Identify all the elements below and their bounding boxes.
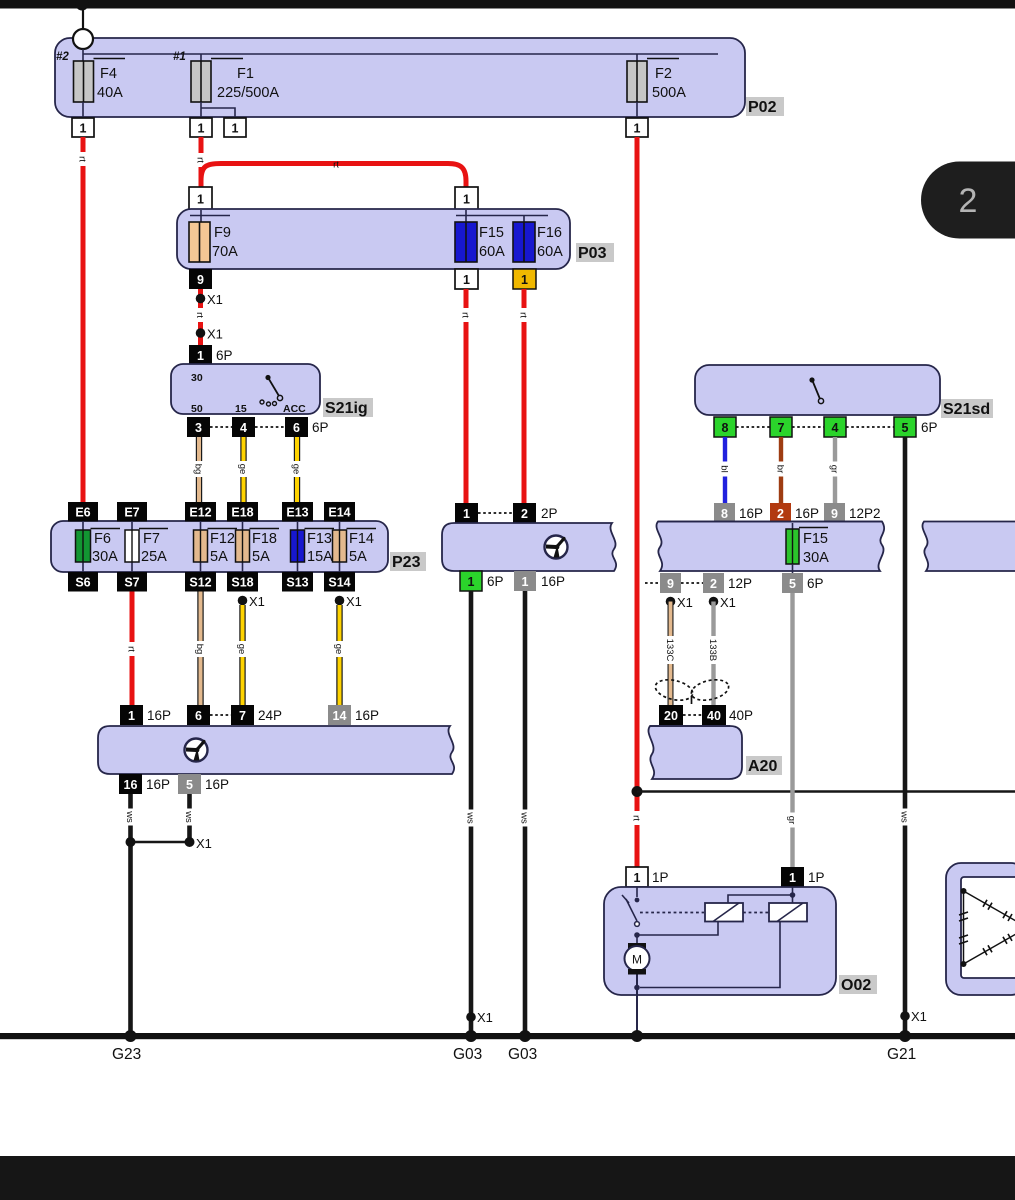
- svg-text:24P: 24P: [258, 708, 282, 723]
- svg-text:4: 4: [240, 421, 247, 435]
- pin 1 1P starter left (white): [626, 867, 648, 887]
- red wire F15 down to pin1 2P: [464, 289, 469, 503]
- node X1: [196, 294, 206, 304]
- wire motor to ground: [636, 975, 638, 1037]
- svg-text:S21ig: S21ig: [325, 400, 368, 417]
- label P03: [576, 243, 614, 262]
- svg-text:rt: rt: [195, 157, 206, 163]
- node X1: [196, 328, 206, 338]
- wire label bg: [194, 641, 207, 657]
- label A20: [746, 756, 782, 775]
- pin 1 2P fan connector: [455, 503, 478, 523]
- svg-text:F9: F9: [214, 225, 231, 241]
- svg-text:12P2: 12P2: [849, 506, 881, 521]
- yellow wire S18 down to pin7: [239, 605, 245, 706]
- wire label ge: [333, 641, 346, 657]
- black wire to G03 left: [469, 591, 474, 1036]
- fuse F16: [513, 222, 535, 262]
- P02 internal bus wire: [83, 49, 718, 61]
- svg-text:X1: X1: [911, 1009, 927, 1024]
- wire label gr: [829, 462, 841, 477]
- svg-text:5A: 5A: [252, 549, 270, 565]
- svg-text:16P: 16P: [146, 777, 170, 792]
- svg-text:2: 2: [959, 182, 978, 220]
- fusible link box P02: [55, 38, 745, 117]
- svg-text:E13: E13: [286, 506, 308, 520]
- O02 junction dot right: [790, 892, 796, 898]
- wire label br: [775, 462, 787, 477]
- pin 8 (green): [714, 417, 736, 437]
- relay coil 1: [705, 903, 743, 922]
- relay switch S21sd: [695, 365, 940, 415]
- svg-text:#1: #1: [173, 51, 186, 63]
- svg-text:#2: #2: [56, 51, 69, 63]
- svg-text:1: 1: [197, 349, 204, 363]
- svg-text:16P: 16P: [147, 708, 171, 723]
- P03 internal bus left: [190, 210, 230, 222]
- grey wire pin4 down: [833, 437, 837, 503]
- connector E12: [185, 502, 216, 522]
- svg-text:F18: F18: [252, 531, 277, 547]
- rear defogger module box (right, partial): [946, 863, 1015, 995]
- pin 9 below junction block (grey): [660, 573, 681, 593]
- wire label rt: [126, 642, 138, 656]
- connector E6: [68, 502, 98, 522]
- O02 dashed actuation line: [640, 912, 704, 914]
- svg-text:1P: 1P: [808, 870, 825, 885]
- switch lever symbol S21sd: [809, 377, 823, 403]
- svg-text:E7: E7: [124, 506, 139, 520]
- junction dot on F2 wire: [632, 786, 643, 797]
- svg-text:ws: ws: [183, 810, 194, 823]
- pin 4 (green): [824, 417, 846, 437]
- svg-text:X1: X1: [677, 595, 693, 610]
- pin 4: [232, 417, 255, 437]
- pin 20: [659, 705, 683, 725]
- wire F1 to pin and branch: [201, 102, 235, 118]
- svg-text:ACC: ACC: [283, 403, 306, 415]
- svg-text:ge: ge: [291, 464, 302, 475]
- O02 dashed actuation line 2: [743, 912, 769, 914]
- svg-text:ws: ws: [124, 810, 135, 823]
- svg-text:12P: 12P: [728, 576, 752, 591]
- svg-text:bg: bg: [194, 644, 205, 655]
- svg-text:70A: 70A: [212, 244, 238, 260]
- connector S14: [324, 572, 355, 592]
- label P02: [746, 97, 784, 116]
- svg-text:7: 7: [778, 421, 785, 435]
- svg-text:1: 1: [197, 193, 204, 207]
- svg-text:E6: E6: [75, 506, 90, 520]
- wire label ws: [465, 810, 478, 827]
- ground junction G03 left: [465, 1030, 477, 1042]
- fuse F4: [74, 59, 126, 103]
- node X1 on left G03 wire: [466, 1012, 476, 1022]
- svg-text:F7: F7: [143, 531, 160, 547]
- svg-text:G23: G23: [112, 1046, 141, 1063]
- O02 contact dot: [635, 898, 640, 903]
- dotted links pins 8-7-4-5: [736, 426, 894, 428]
- red wire F16 down to pin2 2P: [522, 289, 527, 503]
- wire label rt: [518, 308, 530, 322]
- dotted links pin9-pin2: [645, 582, 703, 584]
- svg-text:6P: 6P: [487, 574, 504, 589]
- wire label rt: [631, 811, 644, 825]
- svg-text:P02: P02: [748, 99, 777, 116]
- starter assembly O02: [604, 887, 836, 995]
- black wire pin16 down to ground: [128, 794, 133, 1036]
- svg-text:F15: F15: [803, 531, 828, 547]
- pin 1 below F16 (amber): [513, 269, 536, 289]
- beige wire pin3 to E12: [196, 437, 202, 503]
- wire label ws: [183, 809, 196, 826]
- page tab 2: [921, 162, 1015, 239]
- pin 1 under F2: [626, 118, 648, 137]
- label O02: [839, 975, 877, 994]
- svg-text:S18: S18: [231, 576, 253, 590]
- svg-text:40P: 40P: [729, 708, 753, 723]
- svg-text:9: 9: [667, 577, 674, 591]
- top edge line fix A20: [650, 725, 730, 727]
- pin 1 16P clock module: [120, 705, 143, 725]
- svg-text:5A: 5A: [210, 549, 228, 565]
- pin 9 12P2 (grey): [824, 503, 845, 523]
- svg-text:ge: ge: [333, 644, 344, 655]
- svg-text:5: 5: [789, 577, 796, 591]
- O02 motor bottom dot: [634, 985, 640, 991]
- node X1 below S14: [335, 596, 345, 606]
- svg-text:ws: ws: [519, 811, 530, 824]
- O02 wire right pin to coils: [728, 887, 793, 903]
- svg-text:rt: rt: [460, 312, 471, 318]
- svg-text:G03: G03: [508, 1046, 537, 1063]
- fuse F1: [191, 59, 243, 103]
- label P23: [390, 552, 426, 571]
- red wire F1 pin down to P03 pin 1: [199, 137, 204, 187]
- svg-text:1: 1: [128, 709, 135, 723]
- svg-text:br: br: [775, 465, 786, 473]
- yellow wire pin4 to E18: [240, 437, 246, 503]
- svg-text:1: 1: [232, 122, 239, 136]
- svg-text:X1: X1: [477, 1010, 493, 1025]
- connector S7: [117, 572, 147, 592]
- wire F2 to pin: [636, 102, 638, 118]
- svg-text:gr: gr: [786, 816, 797, 824]
- svg-text:X1: X1: [346, 594, 362, 609]
- pin 2 below junction block (grey): [703, 573, 724, 593]
- svg-text:16P: 16P: [355, 708, 379, 723]
- svg-text:E18: E18: [231, 506, 253, 520]
- black wire to G03 right: [523, 591, 528, 1036]
- svg-text:1: 1: [198, 122, 205, 136]
- beige wire 133C down to pin20: [668, 602, 674, 706]
- svg-text:50: 50: [191, 403, 203, 415]
- wire label rt: [195, 153, 208, 167]
- svg-text:gr: gr: [829, 465, 840, 473]
- red wire F2 pin down to O02: [635, 137, 640, 867]
- svg-text:M: M: [632, 953, 642, 967]
- wire label 133B: [707, 636, 720, 664]
- svg-text:25A: 25A: [141, 549, 167, 565]
- svg-text:4: 4: [832, 421, 839, 435]
- ground junction G21: [899, 1030, 911, 1042]
- pin 7 (green): [770, 417, 792, 437]
- wire label ws: [519, 810, 532, 827]
- pin 16 16P below meter module: [119, 774, 142, 794]
- svg-text:8: 8: [721, 507, 728, 521]
- svg-text:rt: rt: [194, 312, 205, 318]
- svg-text:30: 30: [191, 372, 203, 384]
- junction on top bus: [76, 0, 89, 11]
- fuse box P03: [177, 209, 570, 269]
- svg-text:S7: S7: [124, 576, 139, 590]
- pin 1 above P03 left: [189, 187, 212, 210]
- black wire pin5 down to G21: [903, 437, 908, 1036]
- node X1 below pin9: [666, 597, 676, 607]
- svg-text:40A: 40A: [97, 85, 123, 101]
- beige wire S12 down to pin6: [197, 592, 203, 707]
- svg-text:F13: F13: [307, 531, 332, 547]
- junction block box with F15 30A: [656, 522, 884, 572]
- svg-text:1: 1: [634, 122, 641, 136]
- wire label ge: [291, 461, 304, 477]
- wire label ws: [124, 809, 137, 826]
- svg-text:5A: 5A: [349, 549, 367, 565]
- fuse F12: [194, 529, 238, 563]
- brown wire pin7 down: [779, 437, 783, 503]
- svg-text:6: 6: [195, 709, 202, 723]
- wire label ge: [237, 461, 250, 477]
- dotted link pin20-pin40: [683, 714, 702, 716]
- svg-text:ws: ws: [465, 811, 476, 824]
- svg-text:ge: ge: [237, 464, 248, 475]
- node X1 on G21 wire: [900, 1011, 910, 1021]
- svg-text:F15: F15: [479, 225, 504, 241]
- svg-text:P03: P03: [578, 245, 607, 262]
- grey wire pin5 6P down to O02 pin1: [790, 593, 794, 867]
- red branch wire over to P03 right pin 1: [201, 164, 466, 188]
- pin 1 branch of F1: [224, 118, 246, 137]
- svg-text:16P: 16P: [739, 506, 763, 521]
- fan symbol in meter module: [185, 739, 208, 762]
- wire label rt: [194, 308, 206, 322]
- ignition switch S21ig: [171, 364, 320, 414]
- svg-text:X1: X1: [249, 594, 265, 609]
- svg-text:ws: ws: [899, 810, 910, 823]
- svg-text:F12: F12: [210, 531, 235, 547]
- svg-text:X1: X1: [207, 327, 223, 342]
- wire label bg: [193, 461, 206, 477]
- control module A20: [648, 726, 742, 779]
- fuse F15 30A: [786, 523, 828, 573]
- svg-text:6P: 6P: [807, 576, 824, 591]
- svg-text:A20: A20: [748, 758, 777, 775]
- O02 switch lever: [626, 899, 637, 921]
- O02 junction dot below switch: [634, 932, 640, 938]
- wire label 133C: [664, 636, 677, 664]
- fuse F9: [189, 222, 210, 262]
- svg-text:S12: S12: [189, 576, 211, 590]
- O02 wire coil1 bottom to switch junction: [639, 922, 718, 936]
- pin 2 16P (rust): [770, 503, 791, 523]
- label S21ig: [323, 398, 373, 417]
- svg-text:14: 14: [333, 709, 347, 723]
- svg-text:1: 1: [521, 273, 528, 287]
- svg-text:S6: S6: [75, 576, 90, 590]
- fuse F7: [125, 529, 168, 563]
- svg-text:X1: X1: [196, 836, 212, 851]
- svg-text:2P: 2P: [541, 506, 558, 521]
- black wire from junction to right edge: [637, 790, 1015, 793]
- connector E13: [282, 502, 313, 522]
- svg-text:S21sd: S21sd: [943, 401, 990, 418]
- svg-text:6P: 6P: [312, 420, 329, 435]
- svg-text:F6: F6: [94, 531, 111, 547]
- svg-text:1: 1: [634, 871, 641, 885]
- grey wire 133B down to pin40: [711, 602, 715, 706]
- svg-text:F16: F16: [537, 225, 562, 241]
- connector S12: [185, 572, 216, 592]
- svg-text:ge: ge: [236, 644, 247, 655]
- svg-text:rt: rt: [333, 160, 339, 171]
- svg-text:S14: S14: [328, 576, 350, 590]
- svg-text:16P: 16P: [541, 574, 565, 589]
- svg-text:rt: rt: [126, 646, 137, 652]
- dotted link pin1-pin2: [478, 512, 513, 514]
- svg-text:1: 1: [463, 193, 470, 207]
- svg-text:7: 7: [239, 709, 246, 723]
- blue wire pin8 down: [723, 437, 727, 503]
- svg-text:2: 2: [777, 507, 784, 521]
- twisted pair symbol: [653, 676, 730, 704]
- svg-text:2: 2: [710, 577, 717, 591]
- page bottom dark band: [0, 1156, 1015, 1200]
- pin 2 2P fan connector: [513, 503, 536, 523]
- pin 5 (green): [894, 417, 916, 437]
- svg-text:6: 6: [293, 421, 300, 435]
- svg-text:E12: E12: [189, 506, 211, 520]
- fan symbol in fan module: [545, 536, 568, 559]
- svg-text:F14: F14: [349, 531, 374, 547]
- fuse F15: [455, 222, 477, 262]
- partial module box right edge: [922, 522, 1015, 572]
- svg-text:16P: 16P: [205, 777, 229, 792]
- svg-text:rt: rt: [77, 156, 88, 162]
- pin 1 under F1: [190, 118, 212, 137]
- pin 1 6P connector: [189, 345, 212, 365]
- wire F4 to pin: [82, 102, 84, 118]
- svg-text:133B: 133B: [707, 639, 718, 661]
- svg-text:500A: 500A: [652, 85, 686, 101]
- defogger inner panel: [961, 877, 1015, 978]
- pin 8 16P (grey): [714, 503, 735, 523]
- connector S13: [282, 572, 313, 592]
- pin 5 6P below junction block (grey): [782, 573, 803, 593]
- red wire pin9 to X1 to 6P: [198, 289, 203, 345]
- wire from bus to battery terminal circle: [82, 8, 84, 30]
- yellow wire S14 down to pin14: [336, 605, 342, 706]
- dotted links pins 3-4-6: [210, 426, 285, 428]
- pin 6: [285, 417, 308, 437]
- svg-text:2: 2: [521, 507, 528, 521]
- svg-text:1: 1: [522, 575, 529, 589]
- svg-text:F2: F2: [655, 66, 672, 82]
- svg-text:9: 9: [197, 273, 204, 287]
- switch lever symbol: [260, 375, 283, 406]
- wire label ws: [899, 809, 912, 826]
- svg-text:G03: G03: [453, 1046, 482, 1063]
- svg-text:16: 16: [124, 778, 138, 792]
- top edge line fix: [658, 521, 882, 523]
- pin 1 16P below fan module (grey): [514, 571, 536, 591]
- svg-text:S13: S13: [286, 576, 308, 590]
- pin 1 1P starter right (black): [781, 867, 804, 887]
- yellow wire pin6 to E13: [294, 437, 300, 503]
- internal links E row to fuses: [83, 521, 340, 572]
- red wire F4 pin down to E6: [81, 137, 86, 503]
- svg-text:225/500A: 225/500A: [217, 85, 279, 101]
- node X1: [185, 837, 195, 847]
- fuse F13: [291, 529, 335, 563]
- svg-text:1: 1: [789, 871, 796, 885]
- svg-text:rt: rt: [631, 815, 642, 821]
- relay coil 2: [769, 903, 807, 922]
- O02 wire junction to motor: [636, 935, 638, 944]
- svg-text:15: 15: [235, 403, 247, 415]
- svg-text:P23: P23: [392, 554, 421, 571]
- pin 3: [187, 417, 210, 437]
- pin 1 6P below fan module (green): [460, 571, 482, 591]
- fuse F2: [627, 59, 679, 103]
- wire label gr: [786, 813, 798, 828]
- wire label rt: [460, 308, 472, 322]
- wire label rt: [77, 152, 90, 166]
- pin 1 below F15: [455, 269, 478, 289]
- connector S18: [227, 572, 258, 592]
- svg-text:1: 1: [468, 575, 475, 589]
- wire label ge: [236, 641, 249, 657]
- pin 1 above P03 right: [455, 187, 478, 210]
- fuse F14: [333, 529, 377, 563]
- svg-text:1P: 1P: [652, 870, 669, 885]
- connector E14: [324, 502, 355, 522]
- node X1 below S18: [238, 596, 248, 606]
- junction dot: [126, 837, 136, 847]
- svg-text:5: 5: [186, 778, 193, 792]
- pin 9 below F9: [189, 269, 212, 289]
- svg-text:F4: F4: [100, 66, 117, 82]
- ground bus bar: [0, 1033, 1015, 1039]
- fuse F18: [236, 529, 280, 563]
- black wire pin5 down to X1: [187, 794, 192, 842]
- svg-text:G21: G21: [887, 1046, 916, 1063]
- svg-text:30A: 30A: [92, 549, 118, 565]
- red wire S7 down to pin1 16P: [130, 592, 135, 707]
- link wire between grounds at X1: [131, 841, 190, 843]
- O02 wire coil2 bottom loop to motor bottom: [640, 922, 780, 988]
- svg-text:60A: 60A: [479, 244, 505, 260]
- svg-text:15A: 15A: [307, 549, 333, 565]
- meter module box (bottom left): [98, 726, 454, 774]
- svg-text:1: 1: [80, 122, 87, 136]
- pin 5 16P below meter module (grey): [178, 774, 201, 794]
- label S21sd: [941, 399, 993, 418]
- svg-text:133C: 133C: [664, 639, 675, 662]
- O02 switch open contact: [635, 922, 640, 927]
- svg-text:X1: X1: [207, 292, 223, 307]
- dotted link pin6-pin7: [210, 714, 231, 716]
- pin 7 clock module: [231, 705, 254, 725]
